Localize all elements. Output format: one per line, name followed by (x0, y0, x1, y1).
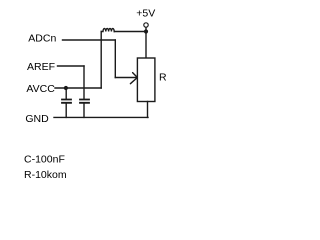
svg-text:R: R (159, 72, 167, 84)
wire C2 bottom lead (83, 104, 85, 118)
wire AREF vertical to C2 (83, 66, 85, 99)
wire C1 top lead (65, 88, 67, 99)
svg-text:C-100nF: C-100nF (24, 153, 65, 165)
wire ADCn vertical drop (114, 40, 116, 78)
capacitor C2 plates (80, 100, 89, 103)
resistor R (potentiometer body) (137, 58, 155, 102)
terminal circle +5V (144, 23, 148, 27)
junction dot AVCC/C1 (64, 86, 68, 90)
wire C1 bottom lead (65, 104, 67, 118)
wire terminal tick (145, 27, 147, 31)
svg-text:R-10kom: R-10kom (24, 169, 67, 181)
capacitor C1 plates (62, 100, 71, 103)
junction dot +5V node (144, 29, 148, 33)
svg-text:+5V: +5V (136, 7, 155, 19)
wire AVCC horizontal (55, 87, 101, 89)
wire GND rail (54, 116, 148, 118)
wiper arrowhead (130, 73, 137, 84)
wire inductor left vertical (crosses ADCn line, no connect) (100, 32, 102, 89)
wire AREF horizontal (58, 65, 85, 67)
wire R bottom to GND (147, 102, 149, 118)
svg-text:ADCn: ADCn (28, 32, 56, 44)
wire ADCn horizontal (63, 39, 116, 41)
wire +5V node to R top (145, 32, 147, 59)
inductor L1 (101, 28, 114, 31)
wire inductor to +5V node (114, 31, 146, 33)
wire wiper horizontal (115, 77, 137, 79)
svg-text:AREF: AREF (27, 61, 55, 73)
svg-text:AVCC: AVCC (26, 83, 55, 95)
svg-text:GND: GND (25, 113, 49, 125)
